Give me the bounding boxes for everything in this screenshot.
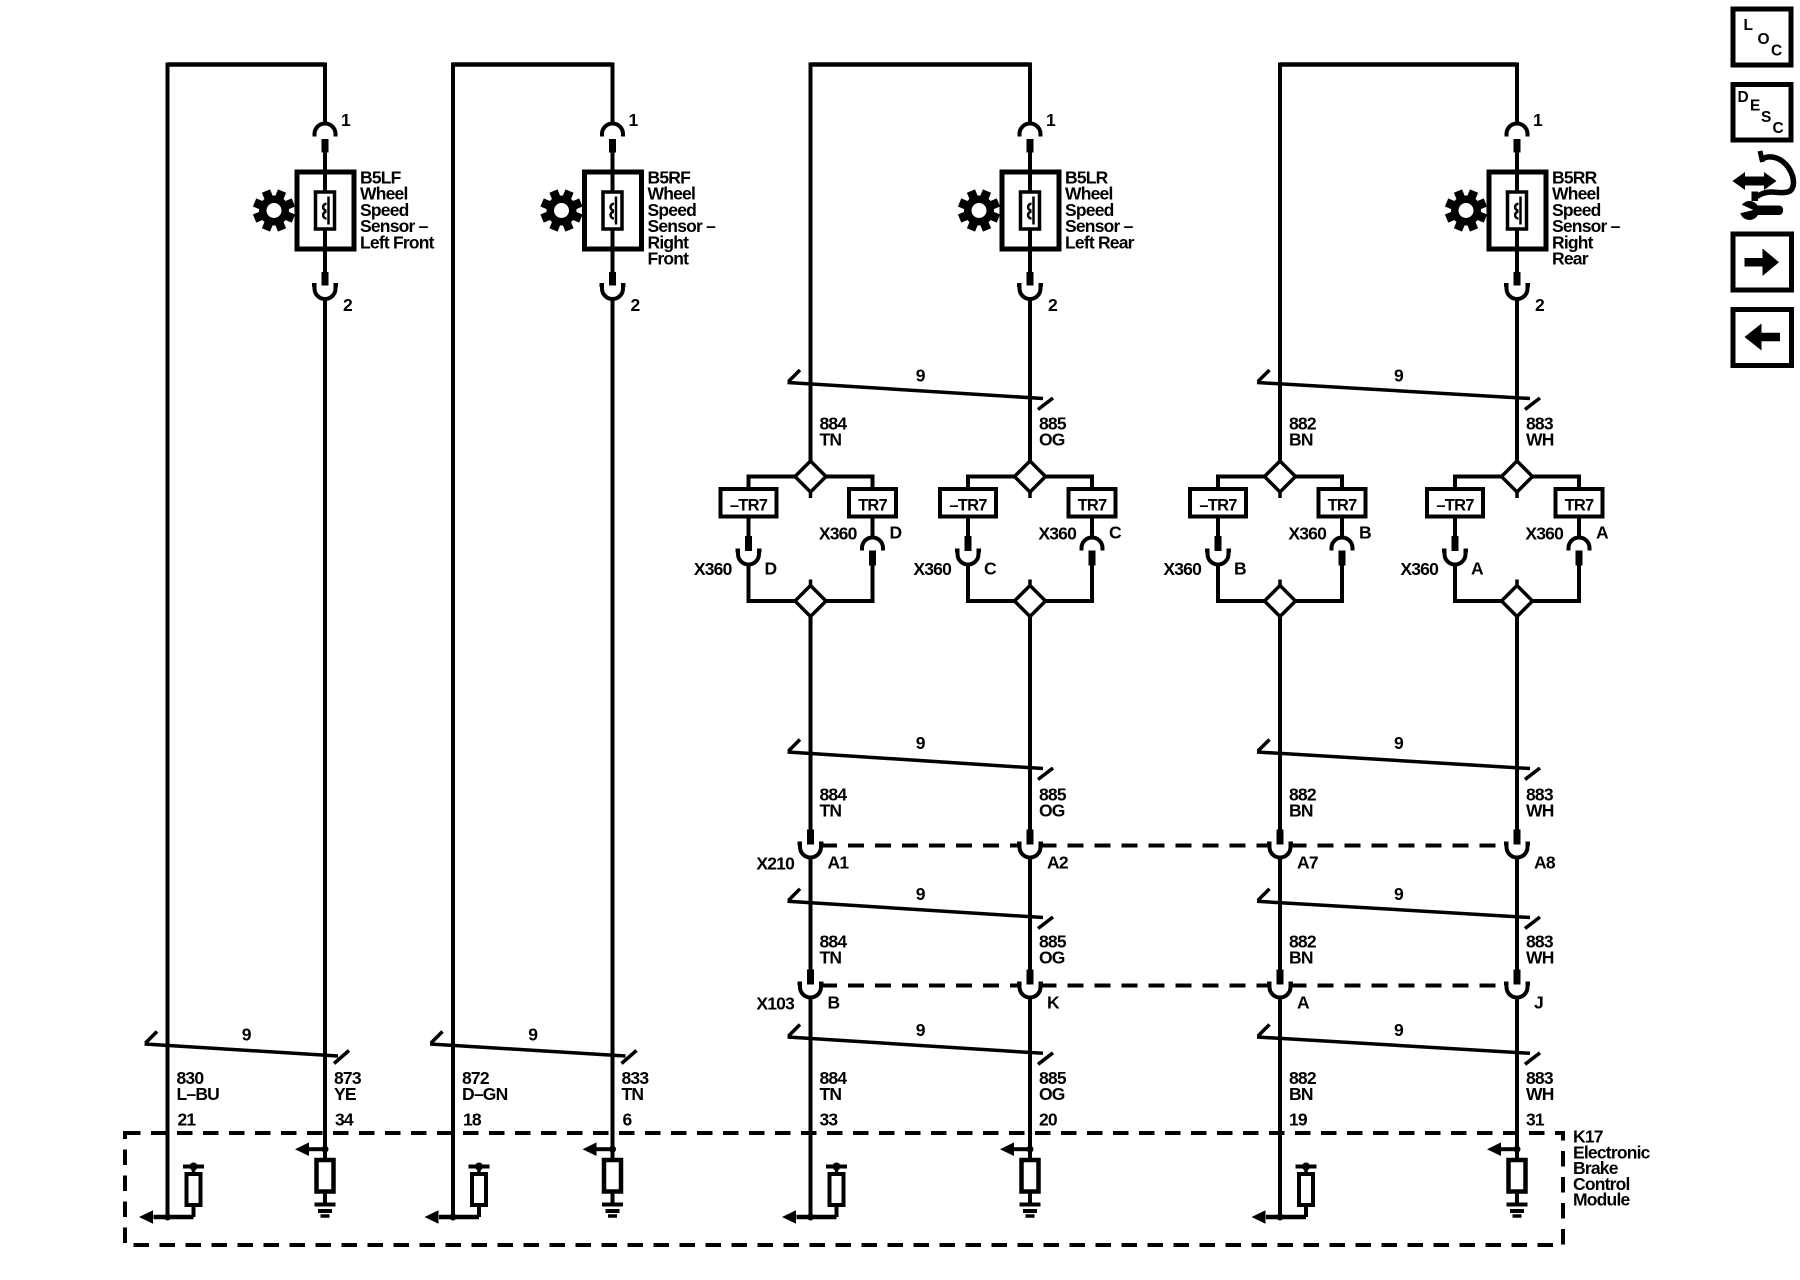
svg-text:A1: A1 (828, 853, 850, 873)
wire from -TR7 (1216, 517, 1220, 537)
twisted pair marker 9 (145, 1044, 339, 1056)
twisted pair marker 9 (788, 901, 1044, 917)
svg-text:21: 21 (178, 1110, 197, 1130)
connector X103 J (1514, 970, 1521, 985)
svg-text:BN: BN (1289, 948, 1313, 968)
wheel speed sensor B5LR (1002, 172, 1059, 249)
splice diamond (merge) (1265, 586, 1296, 617)
svg-text:X360: X360 (1288, 524, 1327, 544)
svg-text:OG: OG (1039, 430, 1065, 450)
svg-text:9: 9 (916, 1020, 926, 1040)
svg-text:TN: TN (622, 1084, 644, 1104)
shield TR7 (1069, 489, 1116, 517)
internal resistor (1022, 1160, 1039, 1192)
wire 882 mid (1278, 617, 1282, 830)
svg-text:O: O (1758, 31, 1770, 48)
svg-text:9: 9 (1394, 884, 1404, 904)
wire 833 TN (611, 297, 615, 1160)
internal resistor with supply tap (183, 1165, 204, 1169)
twisted pair marker 9 (788, 752, 1044, 769)
wire B5LR pin1 lead (1028, 63, 1032, 123)
signal branch arrow (1014, 1147, 1030, 1151)
connector pin 1 of B5LR (1020, 124, 1041, 137)
wire B5RF pin1 lead (611, 63, 615, 123)
wire from TR7 (1340, 517, 1344, 540)
svg-text:2: 2 (1535, 295, 1545, 315)
svg-text:2: 2 (343, 295, 353, 315)
svg-text:–TR7: –TR7 (949, 497, 987, 515)
wire 885 lower (1028, 996, 1032, 1160)
wire 884 mid (809, 617, 813, 830)
wheel speed sensor B5RR (1489, 172, 1546, 249)
svg-text:Left Front: Left Front (360, 232, 435, 252)
wire from TR7 (1577, 517, 1581, 540)
wheel speed sensor B5LF (297, 172, 354, 249)
svg-text:C: C (1109, 523, 1122, 543)
wire from X360 to merge (1577, 566, 1581, 602)
twisted pair marker 9 (1257, 752, 1530, 769)
internal resistor (1509, 1160, 1526, 1192)
internal resistor with supply tap (1296, 1165, 1317, 1169)
svg-text:J: J (1534, 993, 1543, 1013)
connector X360 A (left half) (1452, 536, 1459, 551)
wire to signal return, arrow out (154, 1215, 194, 1220)
svg-text:A8: A8 (1534, 853, 1556, 873)
svg-text:–TR7: –TR7 (730, 497, 768, 515)
twisted pair marker 9 (upper) (1257, 383, 1530, 399)
wire to -TR7 (1455, 475, 1504, 479)
twisted pair marker 9 (lower) (1257, 1037, 1530, 1053)
svg-text:C: C (1771, 43, 1782, 60)
connector X210 A2 (1027, 830, 1034, 845)
svg-text:TR7: TR7 (858, 497, 887, 515)
wire to signal return, arrow out (797, 1215, 837, 1220)
signal branch arrow (597, 1147, 613, 1151)
connector X103 B (807, 970, 814, 985)
ground (1507, 1203, 1528, 1207)
wire loop top B5RF (453, 62, 613, 67)
svg-text:X210: X210 (756, 854, 795, 874)
svg-text:E: E (1750, 98, 1760, 115)
DESC icon (1733, 85, 1791, 141)
signal branch arrow (309, 1147, 325, 1151)
wire to -TR7 (749, 475, 798, 479)
shield TR7 (1319, 489, 1366, 517)
svg-text:C: C (1773, 120, 1784, 137)
svg-text:1: 1 (1533, 110, 1543, 130)
wire to signal return, arrow out (1266, 1215, 1306, 1220)
splice diamond (merge) (1015, 586, 1046, 617)
twisted pair marker 9 (1257, 901, 1530, 917)
svg-text:9: 9 (1394, 733, 1404, 753)
svg-text:Rear: Rear (1552, 249, 1589, 269)
svg-text:9: 9 (1394, 1020, 1404, 1040)
svg-text:–TR7: –TR7 (1199, 497, 1237, 515)
wire 872 D&#8211;GN (451, 63, 455, 1218)
wire from -TR7 (966, 517, 970, 537)
internal resistor (317, 1160, 334, 1192)
svg-text:31: 31 (1526, 1110, 1545, 1130)
connector pin 2 of B5LF (322, 272, 329, 286)
wire 883 lower (1515, 996, 1519, 1160)
wire 884 lower (809, 996, 813, 1217)
svg-text:9: 9 (916, 884, 926, 904)
svg-text:WH: WH (1526, 801, 1554, 821)
harness dashed line X210 (821, 844, 1020, 848)
svg-text:A: A (1471, 559, 1484, 579)
svg-text:–TR7: –TR7 (1436, 497, 1474, 515)
wire to TR7 (1043, 475, 1092, 479)
svg-text:OG: OG (1039, 948, 1065, 968)
svg-text:BN: BN (1289, 430, 1313, 450)
connector X360 D (left half) (745, 536, 752, 551)
connector X360 B (right half) (1332, 538, 1353, 551)
connector X360 C (right half) (1082, 538, 1103, 551)
K17 Electronic Brake Control Module box (125, 1133, 1563, 1245)
svg-text:6: 6 (623, 1110, 633, 1130)
connector X103 K (1027, 970, 1034, 985)
splice diamond (split) (1502, 461, 1533, 492)
wire from TR7 (1090, 517, 1094, 540)
shield drain -TR7 (1190, 489, 1246, 517)
svg-text:TR7: TR7 (1078, 497, 1107, 515)
svg-text:A7: A7 (1297, 853, 1318, 873)
wire 873 YE (323, 297, 327, 1160)
wire to -TR7 (1218, 475, 1267, 479)
connector pin 1 of B5RR (1507, 124, 1528, 137)
splice diamond (split) (795, 461, 826, 492)
wire 883 below X210 (1515, 856, 1519, 970)
connector X360 B (left half) (1215, 536, 1222, 551)
wire loop top B5LR (811, 62, 1031, 67)
wire 885 upper (1028, 297, 1032, 461)
svg-text:9: 9 (528, 1024, 538, 1044)
svg-text:K: K (1047, 993, 1060, 1013)
svg-text:9: 9 (1394, 366, 1404, 386)
signal branch arrow (1501, 1147, 1517, 1151)
connector X210 A8 (1514, 830, 1521, 845)
svg-text:19: 19 (1289, 1110, 1308, 1130)
connector pin 1 of B5RF (602, 124, 623, 137)
LOC icon (1733, 9, 1791, 65)
svg-text:Module: Module (1573, 1190, 1631, 1210)
wire through B5RR (1515, 152, 1519, 273)
wire from X360 to merge (747, 563, 751, 602)
svg-text:S: S (1761, 109, 1771, 126)
shield TR7 (849, 489, 896, 517)
wire 882 upper (1278, 63, 1282, 462)
wire to TR7 (1293, 475, 1342, 479)
svg-text:TR7: TR7 (1565, 497, 1594, 515)
wire to -TR7 (968, 475, 1017, 479)
wire 830 L&#8211;BU (166, 63, 170, 1218)
wire loop top B5RR (1280, 62, 1517, 67)
wire from X360 to merge (1090, 566, 1094, 602)
svg-text:X360: X360 (1163, 559, 1202, 579)
shield drain -TR7 (940, 489, 996, 517)
wire from X360 to merge (1216, 563, 1220, 602)
svg-text:D: D (765, 559, 777, 579)
svg-text:1: 1 (1046, 110, 1056, 130)
wire 883 upper (1515, 297, 1519, 461)
svg-text:WH: WH (1526, 948, 1554, 968)
svg-text:X360: X360 (694, 559, 733, 579)
wire loop top B5LF (168, 62, 326, 67)
ground (315, 1203, 336, 1207)
svg-text:B: B (828, 993, 840, 1013)
svg-text:OG: OG (1039, 1084, 1065, 1104)
svg-text:1: 1 (629, 110, 639, 130)
ground (1020, 1203, 1041, 1207)
wire to TR7 (1530, 475, 1579, 479)
connector X360 D (right half) (862, 538, 883, 551)
svg-text:B: B (1234, 559, 1246, 579)
svg-text:BN: BN (1289, 1084, 1313, 1104)
connector pin 1 of B5LF (315, 124, 336, 137)
svg-text:X103: X103 (756, 994, 795, 1014)
svg-text:9: 9 (916, 733, 926, 753)
svg-text:WH: WH (1526, 1084, 1554, 1104)
connector X210 A7 (1277, 830, 1284, 845)
wire from X360 to merge (966, 563, 970, 602)
svg-text:D: D (1738, 89, 1749, 106)
shield TR7 (1556, 489, 1603, 517)
wire 883 mid (1515, 617, 1519, 830)
splice diamond (split) (1015, 461, 1046, 492)
svg-text:20: 20 (1039, 1110, 1058, 1130)
wire through B5LF (323, 152, 327, 273)
wheel speed sensor B5RF (585, 172, 642, 249)
connector pin 2 of B5LR (1027, 272, 1034, 286)
svg-text:34: 34 (335, 1110, 354, 1130)
svg-text:X360: X360 (819, 524, 858, 544)
svg-text:X360: X360 (913, 559, 952, 579)
svg-text:A: A (1297, 993, 1310, 1013)
forward arrow icon (1733, 234, 1792, 290)
ground (602, 1203, 623, 1207)
internal resistor with supply tap (469, 1165, 490, 1169)
svg-text:Front: Front (648, 249, 690, 269)
connector X360 A (right half) (1569, 538, 1590, 551)
wrench icon (1740, 201, 1759, 220)
wire 884 upper (809, 63, 813, 462)
wire from X360 to merge (871, 566, 875, 602)
internal resistor (604, 1160, 621, 1192)
svg-text:X360: X360 (1525, 524, 1564, 544)
svg-text:WH: WH (1526, 430, 1554, 450)
harness dashed line X103 (821, 984, 1020, 988)
svg-text:L–BU: L–BU (177, 1084, 220, 1104)
wire 882 below X210 (1278, 856, 1282, 970)
wire from -TR7 (1453, 517, 1457, 537)
wire B5RR pin1 lead (1515, 63, 1519, 123)
wire 882 lower (1278, 996, 1282, 1217)
svg-text:TN: TN (820, 948, 842, 968)
wire from X360 to merge (1340, 566, 1344, 602)
splice diamond (merge) (1502, 586, 1533, 617)
wire 884 below X210 (809, 856, 813, 970)
back arrow icon (1733, 310, 1792, 366)
svg-text:33: 33 (820, 1110, 839, 1130)
wire 885 mid (1028, 617, 1032, 830)
splice diamond (merge) (795, 586, 826, 617)
wire from TR7 (871, 517, 875, 540)
wire from X360 to merge (1453, 563, 1457, 602)
svg-text:TN: TN (820, 1084, 842, 1104)
wire to TR7 (824, 475, 873, 479)
svg-text:TR7: TR7 (1328, 497, 1357, 515)
twisted pair marker 9 (upper) (788, 383, 1044, 399)
svg-text:X360: X360 (1038, 524, 1077, 544)
svg-text:2: 2 (1048, 295, 1058, 315)
wire from -TR7 (747, 517, 751, 537)
svg-text:A: A (1596, 523, 1609, 543)
splice diamond (split) (1265, 461, 1296, 492)
wire through B5RF (611, 152, 615, 273)
svg-text:A2: A2 (1047, 853, 1069, 873)
svg-text:C: C (984, 559, 997, 579)
wire through B5LR (1028, 152, 1032, 273)
svg-text:1: 1 (341, 110, 351, 130)
connector X360 C (left half) (965, 536, 972, 551)
svg-text:OG: OG (1039, 801, 1065, 821)
wire 885 below X210 (1028, 856, 1032, 970)
svg-text:L: L (1744, 17, 1753, 34)
loop arrow (1755, 157, 1793, 198)
wire to signal return, arrow out (439, 1215, 479, 1220)
svg-text:2: 2 (631, 295, 641, 315)
svg-text:B: B (1359, 523, 1371, 543)
svg-text:18: 18 (463, 1110, 482, 1130)
svg-text:TN: TN (820, 430, 842, 450)
shield drain -TR7 (721, 489, 777, 517)
svg-text:9: 9 (916, 366, 926, 386)
connector pin 2 of B5RF (609, 272, 616, 286)
connector X210 A1 (807, 830, 814, 845)
svg-text:D–GN: D–GN (462, 1084, 508, 1104)
svg-text:YE: YE (334, 1084, 356, 1104)
twisted pair marker 9 (430, 1044, 626, 1056)
svg-text:X360: X360 (1400, 559, 1439, 579)
internal resistor with supply tap (826, 1165, 847, 1169)
connector pin 2 of B5RR (1514, 272, 1521, 286)
connector X103 A (1277, 970, 1284, 985)
svg-text:D: D (890, 523, 902, 543)
shield drain -TR7 (1427, 489, 1483, 517)
svg-text:Left Rear: Left Rear (1065, 232, 1135, 252)
wire B5LF pin1 lead (323, 63, 327, 123)
diagnostic double-arrow icon (1743, 177, 1766, 186)
svg-text:BN: BN (1289, 801, 1313, 821)
svg-text:9: 9 (242, 1024, 252, 1044)
svg-text:TN: TN (820, 801, 842, 821)
twisted pair marker 9 (lower) (788, 1037, 1044, 1053)
